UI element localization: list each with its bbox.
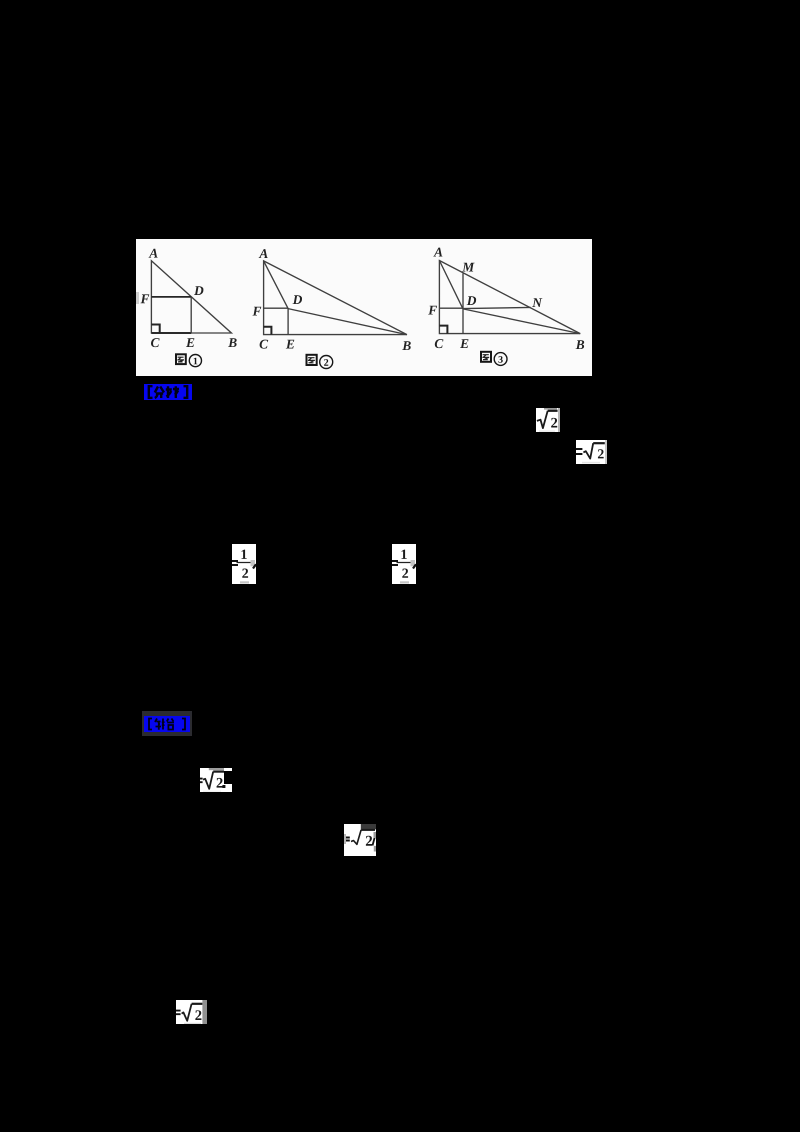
formula image =√2 [576, 440, 607, 464]
fig2 segment DE [287, 308, 289, 334]
fig1 triangle ACB [151, 261, 231, 333]
point labels [149, 249, 158, 258]
formula image =1/2 (first) [232, 544, 256, 584]
fig1 segment FD [151, 296, 191, 298]
fig3 cevian AD [439, 261, 463, 309]
formula image =√2. (black overlap right) [200, 768, 232, 792]
fig3 segment DN [463, 307, 531, 308]
geometry figure strip: three triangle diagrams on white [136, 239, 592, 376]
caption 图2 [307, 355, 333, 369]
fig3 vertical ME [462, 273, 464, 333]
fig3 segment FD [439, 307, 463, 309]
fig3 right angle at C [439, 326, 447, 334]
fig2 segment DB [288, 309, 407, 335]
formula image √2 [536, 408, 560, 432]
faint gray smudge at left edge [136, 292, 139, 304]
fig2 right angle at C [264, 327, 272, 335]
formula image =√2 (bottom) [176, 1000, 207, 1024]
fig1 right angle at C [151, 325, 159, 334]
formula image =1/2 (second) [392, 544, 416, 584]
fig1 base CB emphasised [151, 332, 191, 334]
fig3 triangle ACB [439, 261, 580, 334]
blue highlight label 【分析】 [144, 384, 192, 400]
fig2 triangle ACB [264, 261, 407, 335]
formula image =√2 (corner artifact) [344, 824, 376, 856]
caption 图3 [481, 352, 507, 366]
fig2 cevian AD [264, 261, 289, 309]
dark gray selection box behind label [142, 711, 192, 736]
blue highlight label 【解答】 [144, 716, 190, 732]
fig2 segment FD [264, 307, 289, 309]
caption 图1 [176, 354, 202, 366]
fig1 segment DE [190, 297, 192, 333]
fig3 segment DB [463, 309, 580, 334]
